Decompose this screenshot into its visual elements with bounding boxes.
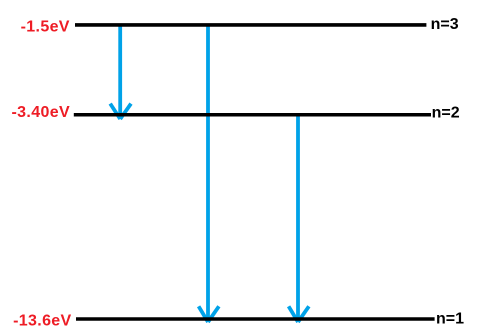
svg-text:-1.5eV: -1.5eV <box>21 18 70 35</box>
svg-text:-13.6eV: -13.6eV <box>13 313 72 330</box>
svg-text:-3.40eV: -3.40eV <box>12 104 71 121</box>
energy level line n=1 <box>76 317 435 321</box>
svg-text:n=1: n=1 <box>436 311 464 328</box>
energy level line n=2 <box>74 113 431 117</box>
energy level line n=3 <box>75 23 426 27</box>
transition arrow n=3 to n=1 <box>199 24 219 322</box>
svg-text:n=2: n=2 <box>432 105 460 122</box>
transition arrow n=2 to n=1 <box>289 114 309 322</box>
svg-text:n=3: n=3 <box>431 16 459 33</box>
transition arrow n=3 to n=2 <box>110 25 131 119</box>
